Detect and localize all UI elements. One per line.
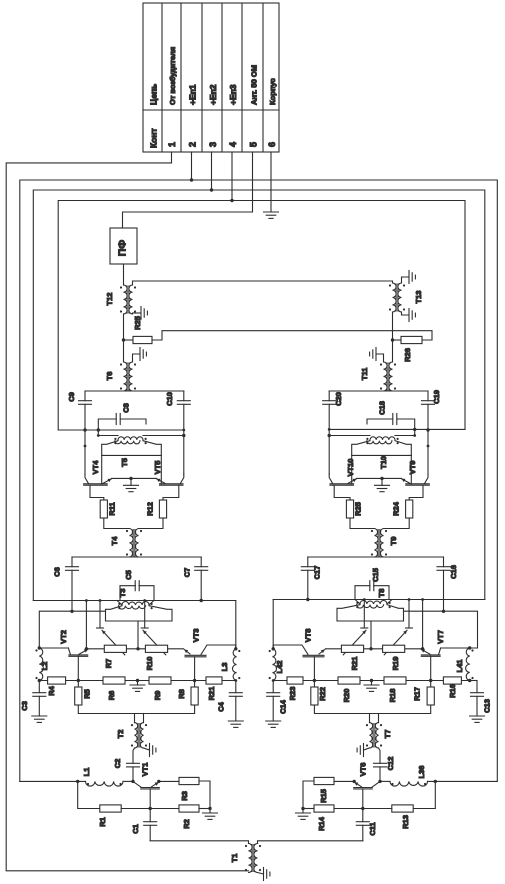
svg-text:R9: R9 [153,691,162,701]
svg-text:R8: R8 [177,689,186,699]
capacitor C20 [323,391,343,474]
inductor L3 [220,649,240,681]
svg-text:+Еп1: +Еп1 [188,84,198,105]
table pin number 2 [188,142,198,147]
wire R24 to T9 [384,518,410,529]
transformer T2 [116,714,147,749]
junction T10 winding taps [328,434,417,437]
wire pin1 exciter input bus (left outer) [6,152,248,871]
table header cell: Конт [149,128,159,148]
svg-text:4: 4 [228,142,238,147]
svg-text:VT3: VT3 [192,629,201,643]
resistor R22 [311,687,327,705]
resistor R13 [363,781,436,828]
junction R3/R2 node with ground [296,807,311,820]
capacitor C3 [20,681,47,723]
transformer T11 [360,362,396,391]
junction C7/supply [200,599,203,602]
junction C4 top [234,679,237,682]
svg-text:R16: R16 [448,684,457,698]
table pin number 6 [267,142,277,147]
junction emitter-rail drop [85,599,88,650]
ground T1 secondary [258,868,270,881]
svg-text:C11: C11 [368,822,377,835]
svg-text:R18: R18 [388,689,397,703]
svg-text:C8: C8 [122,403,131,413]
wire T12 to T13 (top link) [133,281,393,285]
junction emitter-rail drop [421,598,424,650]
transistor VT3 [184,629,236,687]
resistor R18 [384,677,406,702]
wire R25 to T9 [350,518,375,529]
resistor R11 [100,500,116,518]
wire R12 to T4 [139,518,164,529]
ground between final transistors [112,477,157,492]
wire pin5 antenna to band filter [123,152,253,228]
capacitor C4 [217,681,244,728]
resistor R26 [393,336,423,361]
wire R5/R8 bottoms to T2 top [314,705,430,714]
resistor R9 [149,677,171,700]
svg-text:1: 1 [167,142,177,147]
resistor R4 [47,677,66,696]
resistor R2 [150,805,210,829]
junction C16/link [442,610,445,613]
wire base/emitter rail [86,648,183,650]
svg-text:Корпус: Корпус [268,78,277,105]
inductor L2 [35,648,49,681]
junction R19 wiper [408,598,411,601]
transistor VT6 [353,763,382,809]
svg-text:R23: R23 [288,687,297,701]
svg-text:C4: C4 [217,701,226,711]
junction base feed / R13 [434,780,437,783]
svg-text:+Еп3: +Еп3 [228,84,238,105]
svg-text:C12: C12 [386,757,395,771]
table net name: Корпус [268,78,277,105]
wire driver supply line [273,600,485,649]
junction C9 / supply rail [83,428,86,447]
svg-text:T10: T10 [379,456,388,469]
ground at T13 top [402,271,416,284]
inductor L1 [82,768,123,786]
svg-text:VT2: VT2 [59,630,68,644]
svg-text:3: 3 [208,142,218,147]
junction collector node L42 [272,647,275,650]
transformer T5 [98,430,184,467]
svg-text:T9: T9 [389,537,398,546]
resistor R12 [146,500,167,518]
capacitor C19 [422,390,442,474]
svg-text:VT4: VT4 [91,460,100,475]
resistor R24 [392,500,413,518]
resistor R17 [413,687,435,705]
resistor R15 [303,777,354,808]
junction L2 bottom [38,679,41,682]
table pin number 4 [228,142,238,147]
ground pin6 Корпус [264,152,279,218]
junction C6/link [70,610,73,613]
wire R11 to T4 [104,518,130,529]
svg-text:6: 6 [267,142,277,147]
svg-text:R25: R25 [354,502,363,516]
resistor R23 [287,677,303,700]
band-pass filter ПФ [110,228,137,264]
ground T7 secondary [357,744,369,757]
capacitor C12 [374,748,396,781]
resistor R5 [75,687,92,705]
wire +Ep3 rail with left/right drops [58,152,465,430]
junction +Ep1/pin2 [190,178,193,181]
svg-text:L1: L1 [82,768,91,777]
capacitor C14 [266,681,288,728]
junction R3/R2 node with ground [203,807,218,820]
junction supply rail / C8 branch [328,428,417,431]
svg-text:L2: L2 [40,662,49,671]
junction transformer tap / rail [136,647,139,650]
capacitor C10 [165,391,190,474]
capacitor C17 [301,557,321,600]
capacitor C9 [67,391,92,474]
svg-text:R24: R24 [392,501,401,516]
ground at T12 secondary bottom [133,307,148,320]
junction base drop / R8 [193,679,196,682]
svg-text:VT7: VT7 [436,630,445,644]
svg-text:R15: R15 [319,789,328,803]
junction supply rail / C8 branch [97,428,186,431]
capacitor C7 [183,557,208,600]
svg-text:T8: T8 [377,589,386,598]
connector table XS1 [143,3,279,152]
trimmer R19 [383,600,413,671]
svg-text:VT5: VT5 [153,461,162,475]
junction emitter node [149,807,152,810]
svg-text:R3: R3 [180,791,189,801]
junction L2 top [38,646,41,649]
wire ПФ to T12 [123,264,125,285]
svg-text:R20: R20 [342,689,351,703]
svg-text:C7: C7 [183,568,192,578]
wire inductor-top link line [404,611,478,648]
svg-text:R1: R1 [98,817,107,827]
transformer T4 [110,529,142,558]
transformer T13 [389,283,423,312]
svg-text:C15: C15 [371,568,380,582]
transformer T3 [106,589,173,649]
svg-text:R2: R2 [182,819,191,829]
capacitor C16 [437,557,458,611]
svg-text:5: 5 [249,142,259,147]
junction emitter node [361,807,364,810]
svg-text:R13: R13 [401,815,410,829]
junction node T12/T6/R25 [122,338,125,341]
transformer T10 [329,429,415,469]
svg-text:R25: R25 [133,316,142,330]
wire base feed line [380,780,497,782]
svg-text:VT6: VT6 [359,763,368,777]
svg-text:C17: C17 [313,566,322,580]
trimmer R7 [97,601,127,669]
transistor VT4 [84,455,112,500]
svg-text:T12: T12 [105,293,114,306]
table net name: +Еп1 [188,84,198,105]
resistor R8 [177,687,198,705]
junction transformer tap / rail [369,647,372,650]
svg-text:T2: T2 [116,730,125,739]
capacitor C15 [355,568,389,599]
wire base/emitter rail [326,648,423,650]
svg-text:C14: C14 [279,699,288,714]
svg-text:T5: T5 [120,458,129,467]
resistor R3 [159,777,210,808]
svg-text:R14: R14 [317,816,326,831]
wire final stage top rail [85,390,184,392]
svg-text:Ант. 50 ОМ: Ант. 50 ОМ [250,65,259,105]
svg-text:T11: T11 [360,368,369,381]
table net name: Ант. 50 ОМ [250,65,259,105]
table pin number 5 [249,142,259,147]
svg-text:R19: R19 [391,657,400,671]
svg-text:R5: R5 [83,689,92,699]
svg-text:Цепь: Цепь [149,84,159,105]
svg-text:R10: R10 [145,657,154,671]
svg-text:R6: R6 [107,691,116,701]
transformer T7 [366,714,392,749]
svg-text:T1: T1 [230,854,239,863]
wire driver supply line [33,601,236,649]
junction L41 bottom [468,679,471,682]
wire +Ep1 rail with left/right drops [20,152,498,781]
wire +Ep2 rail with left/right drops [33,152,485,601]
svg-text:C1: C1 [131,824,140,834]
svg-text:C2: C2 [113,759,122,769]
capacitor C6 [53,557,79,611]
transistor VT9 [402,455,430,500]
wire C11 to T1 [258,841,363,844]
junction L41 top [468,646,471,649]
wire inductor-top link line [39,611,105,648]
transistor VT2 [39,630,88,687]
wire T13 bottom to T11 top [392,312,394,362]
svg-text:R17: R17 [413,687,422,701]
svg-text:L36: L36 [417,766,426,779]
transformer T12 [105,285,136,314]
svg-text:R26: R26 [403,348,412,362]
junction collector node L3 [234,647,237,650]
ground center of driver bias line [130,679,145,692]
svg-text:L41: L41 [455,660,464,673]
transformer T8 [337,589,404,649]
table net name: От возбудителя [168,47,177,105]
wire base feed line [20,780,133,782]
svg-text:C9: C9 [67,392,76,402]
svg-text:R11: R11 [108,502,117,515]
junction base lead / R17 [429,679,432,682]
junction T5 winding taps [97,434,186,437]
capacitor C11 [356,809,377,841]
wire base bias line [273,680,470,682]
resistor R16 [443,677,461,698]
trimmer R10 [141,601,167,671]
wire base bias line [39,680,236,682]
wire R5/R8 bottoms to T2 top [78,705,194,714]
svg-text:C19: C19 [432,390,441,404]
wire driver stage top rail [308,556,444,558]
svg-text:VT10: VT10 [346,459,355,477]
wire final stage top rail [329,390,428,392]
junction C19 / supply rail [426,428,429,447]
junction +Ep2/pin3 [210,188,213,191]
svg-text:C20: C20 [334,392,343,406]
svg-text:ПФ: ПФ [117,240,129,257]
inductor L42 [269,649,284,681]
table net name: +Еп3 [228,84,238,105]
resistor R21 [206,677,222,700]
svg-text:T3: T3 [118,589,127,598]
svg-text:T13: T13 [414,291,423,304]
resistor R25 [346,500,362,518]
svg-text:T6: T6 [105,372,114,381]
ground T2 secondary [144,744,156,757]
ground at T11 top [370,348,384,363]
inductor L41 [455,648,474,681]
table pin number 3 [208,142,218,147]
junction R7 wiper [99,599,102,602]
ground at T6 top [133,348,147,363]
svg-text:C3: C3 [20,701,29,711]
svg-text:C10: C10 [165,392,174,406]
svg-text:Конт: Конт [149,128,159,148]
svg-text:R22: R22 [318,687,327,701]
svg-text:+Еп2: +Еп2 [208,84,218,105]
svg-text:T7: T7 [383,730,392,739]
resistor R14 [303,805,363,831]
svg-text:L42: L42 [275,661,284,674]
svg-text:C18: C18 [377,401,386,415]
transformer T6 [105,362,136,391]
wire final stage supply rail [58,429,184,431]
inductor L36 [390,766,428,787]
ground at T13 bottom [402,309,416,322]
transistor VT5 [153,455,184,500]
resistor R6 [103,677,125,700]
svg-text:C16: C16 [449,565,458,579]
svg-text:VT9: VT9 [408,461,417,475]
svg-text:VT8: VT8 [304,629,313,643]
transformer T1 [230,844,261,873]
capacitor C1 [131,809,157,841]
transistor VT8 [273,629,325,687]
capacitor C2 [113,748,140,781]
svg-text:R12: R12 [146,502,155,516]
junction base drop / R22 [313,679,316,682]
resistor R25 [124,316,153,343]
resistor R20 [338,677,360,702]
junction base feed / R1 [76,780,79,783]
wire feedback line R25 to R26 [152,331,432,340]
wire T12 bottom to T6 top [123,314,125,362]
table net name: +Еп2 [208,84,218,105]
transistor VT7 [421,630,470,687]
trimmer R21 [341,600,367,671]
capacitor C13 [470,681,492,723]
svg-text:R4: R4 [47,685,56,695]
svg-text:От возбудителя: От возбудителя [168,47,177,105]
svg-text:2: 2 [188,142,198,147]
resistor R1 [78,781,151,826]
svg-text:C13: C13 [482,699,491,713]
svg-text:R7: R7 [104,659,113,669]
table pin number 1 [167,142,177,147]
svg-text:C6: C6 [53,567,62,577]
wire driver stage top rail [72,556,201,558]
wire final stage supply rail [329,428,465,430]
junction +Ep3/pin4 [230,199,233,202]
svg-text:L3: L3 [220,663,229,672]
capacitor C18 [367,401,415,429]
svg-text:C5: C5 [124,570,133,580]
wire emitter-rail drop from supply [85,601,87,649]
junction C17/supply [306,598,309,601]
junction base lead / R5 [77,679,80,682]
svg-text:VT1: VT1 [141,763,150,777]
junction R10 wiper [143,599,146,602]
table header cell: Цепь [149,84,159,105]
ground center of driver bias line [364,679,379,692]
svg-text:T4: T4 [110,536,119,546]
ground between final transistors [357,477,402,492]
capacitor C5 [120,570,154,599]
transistor VT10 [329,455,356,500]
junction R21 wiper [363,598,366,601]
svg-text:R21: R21 [207,687,216,701]
wire emitter-rail drop from supply [422,600,424,649]
junction node T13/T11/R26 [391,338,394,341]
transistor VT1 [131,763,160,809]
capacitor C8 [98,403,146,430]
transformer T9 [371,529,398,558]
wire C1 to T1 [150,841,248,844]
svg-text:R21: R21 [350,657,359,671]
junction C14 top [272,679,275,682]
